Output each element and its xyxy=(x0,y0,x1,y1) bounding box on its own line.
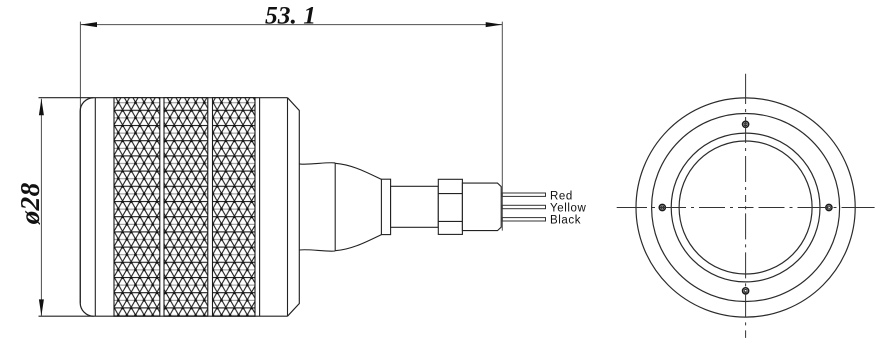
knurl section 1 xyxy=(114,98,160,317)
dimension 53.1 horizontal dimension line xyxy=(80,22,502,303)
svg-text:ø28: ø28 xyxy=(14,183,45,226)
screw hole top xyxy=(743,121,749,127)
wire red xyxy=(502,193,545,196)
front view middle circle xyxy=(652,114,840,302)
body outline left cap and chamfered right xyxy=(80,98,299,317)
nut flat line lower xyxy=(438,220,462,222)
knurl section 2 xyxy=(164,98,208,317)
arrowhead bottom of phi28 xyxy=(39,299,44,316)
thin cylinder xyxy=(391,186,439,227)
svg-text:Black: Black xyxy=(550,215,581,227)
front view bore circle xyxy=(679,141,812,274)
neck vertical line xyxy=(334,163,336,251)
nut flat line upper xyxy=(438,193,462,195)
taper bottom curve xyxy=(335,235,381,251)
connector body xyxy=(462,183,501,231)
front view inner lip circle xyxy=(671,133,820,282)
arrowhead top of phi28 xyxy=(39,99,44,116)
vertical centerline xyxy=(745,74,747,338)
taper top curve xyxy=(335,163,381,179)
screw hole left xyxy=(659,204,665,210)
svg-text:Yellow: Yellow xyxy=(550,203,587,215)
flange xyxy=(381,179,390,234)
cap boundary line xyxy=(94,98,96,317)
neck shoulder bottom xyxy=(299,250,335,251)
body top edge with extension line xyxy=(39,97,288,99)
front view outer circle xyxy=(636,98,855,317)
collar line right of knurls xyxy=(259,98,261,317)
svg-text:53. 1: 53. 1 xyxy=(265,0,316,29)
arrowhead left of 53.1 xyxy=(80,22,97,27)
neck shoulder top xyxy=(299,163,335,164)
wire black xyxy=(502,218,545,221)
nut xyxy=(438,179,462,234)
wire yellow xyxy=(502,205,545,208)
dimension phi28 vertical dimension line xyxy=(40,99,42,316)
chamfer shoulder line xyxy=(287,98,289,317)
screw hole right xyxy=(826,204,832,210)
svg-text:Red: Red xyxy=(550,190,573,202)
horizontal centerline xyxy=(617,207,875,209)
arrowhead right of 53.1 xyxy=(486,22,503,27)
screw hole bottom xyxy=(743,288,749,294)
body bottom edge with extension line xyxy=(39,315,288,317)
knurl section 3 xyxy=(213,98,256,317)
